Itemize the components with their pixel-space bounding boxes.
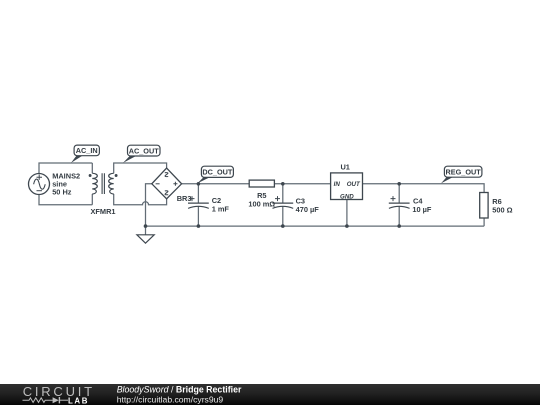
voltage source plus <box>37 175 43 180</box>
transformer secondary coil <box>109 173 114 194</box>
svg-text:BR3: BR3 <box>177 194 192 203</box>
regulator U1 box <box>331 173 363 200</box>
svg-text:470 µF: 470 µF <box>296 205 320 214</box>
svg-text:REG_OUT: REG_OUT <box>445 168 481 177</box>
wire primary loop left/top/bottom <box>39 163 92 205</box>
svg-text:1 mF: 1 mF <box>212 204 230 213</box>
svg-text:50 Hz: 50 Hz <box>52 188 72 197</box>
wire C4 leads <box>398 184 400 226</box>
resistor R6 box <box>480 193 488 219</box>
transformer core lines <box>102 173 104 194</box>
junction node C3 top <box>281 182 285 186</box>
transformer secondary dot <box>115 174 118 177</box>
svg-text:LAB: LAB <box>68 396 89 405</box>
logo resistor-diode glyph <box>23 397 69 403</box>
junction node ground <box>144 224 148 228</box>
transformer primary dot <box>89 174 92 177</box>
wire ground stub <box>145 226 147 235</box>
svg-text:IN: IN <box>334 181 341 188</box>
svg-text:AC_OUT: AC_OUT <box>129 146 160 155</box>
wire C2 leads <box>197 184 199 226</box>
svg-text:AC_IN: AC_IN <box>76 146 98 155</box>
svg-text:http://circuitlab.com/cyrs9u9: http://circuitlab.com/cyrs9u9 <box>117 394 224 404</box>
svg-text:10 µF: 10 µF <box>412 205 432 214</box>
svg-text:100 mΩ: 100 mΩ <box>248 200 275 209</box>
svg-text:OUT: OUT <box>347 181 361 188</box>
flag AC_IN <box>71 145 99 163</box>
flag AC_OUT <box>123 145 160 163</box>
bridge rectifier BR3 diamond <box>152 168 182 199</box>
voltage source minus <box>37 190 43 192</box>
junction node DC_OUT/C2 <box>197 182 201 186</box>
svg-text:U1: U1 <box>340 162 349 171</box>
junction node C4 top <box>397 182 401 186</box>
svg-text:XFMR1: XFMR1 <box>90 207 115 216</box>
wire U1 GND pin <box>346 200 348 227</box>
wire primary stubs <box>91 163 93 205</box>
bridge tilde bottom <box>165 191 168 195</box>
svg-text:500 Ω: 500 Ω <box>492 205 512 214</box>
bridge tilde top <box>165 173 168 177</box>
wire bottom rail <box>146 225 485 227</box>
junction node C3 bottom <box>281 224 285 228</box>
transformer XFMR1 primary coil <box>92 173 97 194</box>
wire R6 bottom lead <box>483 218 485 226</box>
junction node U1 GND bottom <box>345 224 349 228</box>
junction node C4 bottom <box>397 224 401 228</box>
svg-text:DC_OUT: DC_OUT <box>202 168 233 177</box>
bridge plus <box>173 182 177 186</box>
resistor R5 box <box>249 180 274 187</box>
capacitor C3 <box>272 196 293 208</box>
ground <box>137 235 154 243</box>
flag REG_OUT <box>441 166 482 183</box>
capacitor C4 <box>389 196 410 208</box>
svg-text:GND: GND <box>340 194 354 201</box>
voltage source sine wave <box>34 179 46 189</box>
capacitor C2 <box>188 196 209 208</box>
wire secondary top to bridge <box>114 163 167 173</box>
voltage source MAINS2 circle <box>29 174 50 195</box>
wire C3 leads <box>282 184 284 226</box>
footer bar <box>0 384 540 405</box>
wire main top rail <box>182 184 485 193</box>
flag DC_OUT <box>197 166 233 183</box>
wire bridge left corner to ground rail <box>146 184 152 226</box>
wire secondary bottom to bridge with hop <box>114 194 167 205</box>
bridge minus <box>156 183 160 185</box>
junction node C2 bottom <box>197 224 201 228</box>
svg-text:BloodySword / Bridge Rectifier: BloodySword / Bridge Rectifier <box>117 384 242 394</box>
